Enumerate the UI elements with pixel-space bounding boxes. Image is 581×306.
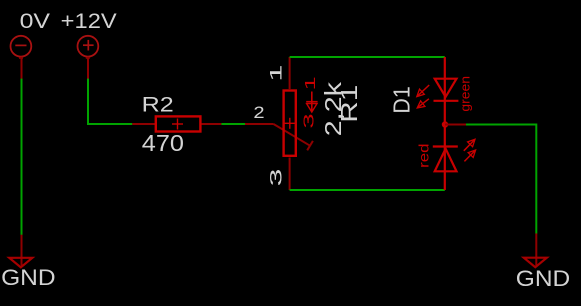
LED D1 emission arrows top (pointing down-left) — [417, 85, 429, 108]
potentiometer arrow end label 1 (red) — [302, 76, 319, 90]
ground symbol left — [9, 258, 32, 268]
resistor R2 value label 470 — [142, 130, 184, 156]
LED D1 red label — [416, 144, 431, 168]
pin number 3 — [267, 169, 285, 187]
potentiometer R1 — [284, 91, 296, 156]
resistor R2 name label — [142, 92, 174, 116]
svg-text:GND: GND — [516, 266, 570, 291]
wire +12V net to R2 (green) — [88, 79, 132, 124]
svg-text:GND: GND — [1, 265, 56, 290]
svg-text:470: 470 — [142, 130, 184, 156]
svg-text:3: 3 — [267, 169, 285, 187]
pin number 2 — [253, 104, 264, 122]
svg-text:3: 3 — [301, 113, 318, 128]
resistor R2 — [156, 116, 201, 131]
ground label left GND — [1, 265, 56, 290]
svg-text:0V: 0V — [20, 10, 50, 33]
svg-text:D1: D1 — [388, 86, 414, 113]
svg-text:red: red — [416, 144, 431, 168]
LED D1 green label — [459, 76, 473, 112]
potentiometer direction arrow (red) — [306, 92, 317, 113]
net label 0V — [20, 10, 50, 33]
wire net R1 pin1 to LED top (green) — [290, 56, 445, 58]
wire GND right pin lead (dark red) — [535, 233, 537, 265]
wire 0V net vertical (green) — [21, 79, 23, 235]
svg-text:R2: R2 — [142, 92, 174, 116]
wire 0V pin lead (dark red) — [21, 57, 23, 79]
wire R2 pin 2 lead (dark red) — [202, 123, 222, 125]
supply symbol 0V — [11, 36, 32, 58]
LED D1 — [433, 57, 459, 190]
svg-text:1: 1 — [302, 76, 319, 90]
potentiometer R1 value label 2,2k — [320, 82, 346, 137]
junction middle of D1 — [442, 121, 448, 127]
svg-text:+12V: +12V — [61, 10, 117, 33]
ground label right GND — [516, 266, 570, 291]
potentiometer R1 name label — [336, 85, 362, 123]
wire net D1 middle to GND right (green) — [466, 125, 536, 234]
ground symbol right — [524, 258, 547, 268]
wire +12V pin lead (dark red) — [87, 57, 89, 79]
LED D1 emission arrows bottom (pointing up-right) — [464, 139, 476, 161]
net label +12V — [61, 10, 117, 33]
wire R2 pin 1 lead (dark red) — [132, 123, 155, 125]
wire R1 pin 3 lead (dark red) — [289, 158, 291, 191]
wire net R1 pin3 to LED bottom (green) — [290, 189, 445, 191]
svg-text:green: green — [459, 76, 473, 112]
svg-text:R1: R1 — [336, 85, 362, 123]
wire net R2 to R1 wiper (green) — [221, 123, 245, 125]
wire R1 pin 2 wiper lead (dark red) — [245, 124, 313, 150]
LED D1 name label — [388, 86, 414, 113]
wire GND left pin lead (dark red) — [21, 235, 23, 266]
svg-text:2: 2 — [253, 104, 264, 122]
pin number 1 — [267, 65, 285, 82]
svg-text:1: 1 — [267, 65, 285, 82]
wire D1 middle stub (dark red) — [445, 124, 466, 126]
potentiometer arrow end label 3 (red) — [301, 113, 318, 128]
wire R1 pin 1 lead (dark red) — [289, 57, 291, 89]
supply symbol +12V — [78, 36, 99, 58]
